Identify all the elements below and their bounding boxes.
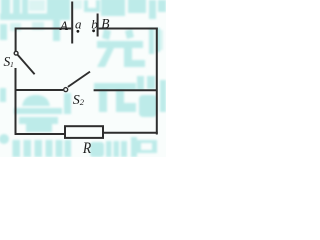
node dot a xyxy=(77,30,80,33)
wire top-left horizontal xyxy=(16,28,72,30)
capacitor plate A xyxy=(71,2,73,44)
svg-text:A: A xyxy=(59,18,68,33)
switch S1 blade xyxy=(18,55,35,74)
wire middle-left horizontal xyxy=(15,89,64,91)
wire left rail upper xyxy=(15,28,17,52)
svg-text:R: R xyxy=(82,140,91,157)
svg-text:B: B xyxy=(101,16,109,31)
switch S2 contact circle xyxy=(64,88,68,92)
wire top-right horizontal xyxy=(99,28,158,30)
wire left rail lower xyxy=(15,68,17,135)
svg-text:S2: S2 xyxy=(73,93,85,108)
switch S2 blade xyxy=(68,72,90,87)
capacitor plate B xyxy=(97,14,99,37)
wire bottom-left horizontal xyxy=(15,133,65,135)
wire middle-right horizontal xyxy=(94,89,157,91)
resistor R box xyxy=(65,126,103,138)
wire bottom-right horizontal xyxy=(103,132,158,134)
wire right rail xyxy=(156,28,158,135)
svg-text:b: b xyxy=(91,17,98,32)
node dot b xyxy=(92,29,95,32)
svg-text:S1: S1 xyxy=(4,54,14,69)
switch S1 pivot circle xyxy=(14,51,18,55)
svg-text:a: a xyxy=(75,17,82,32)
